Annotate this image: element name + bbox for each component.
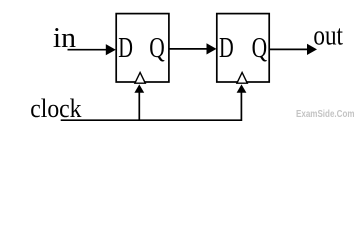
arrowhead into FF1 D <box>106 44 116 55</box>
svg-text:D: D <box>118 33 133 64</box>
svg-text:Q: Q <box>252 33 268 64</box>
wire in to FF1 D input <box>68 49 108 51</box>
svg-text:ExamSide.Com: ExamSide.Com <box>296 109 355 120</box>
wire FF2 Q to out <box>269 48 308 50</box>
wire FF1 Q to FF2 D <box>169 48 208 50</box>
wire clock bus <box>61 91 242 120</box>
D flip-flop FF2 body <box>217 14 269 82</box>
arrowhead clock to FF2 <box>237 84 247 92</box>
wire clock riser to FF1 <box>138 91 140 120</box>
arrowhead clock to FF1 <box>134 84 144 92</box>
clock edge triangle FF1 <box>135 73 145 84</box>
svg-text:clock: clock <box>30 94 82 123</box>
svg-text:Q: Q <box>149 33 165 64</box>
clock edge triangle FF2 <box>237 73 247 84</box>
svg-text:D: D <box>219 33 234 64</box>
D flip-flop FF1 body <box>116 14 169 82</box>
arrowhead out <box>307 44 317 55</box>
svg-text:out: out <box>313 21 343 52</box>
arrowhead into FF2 D <box>207 43 217 54</box>
